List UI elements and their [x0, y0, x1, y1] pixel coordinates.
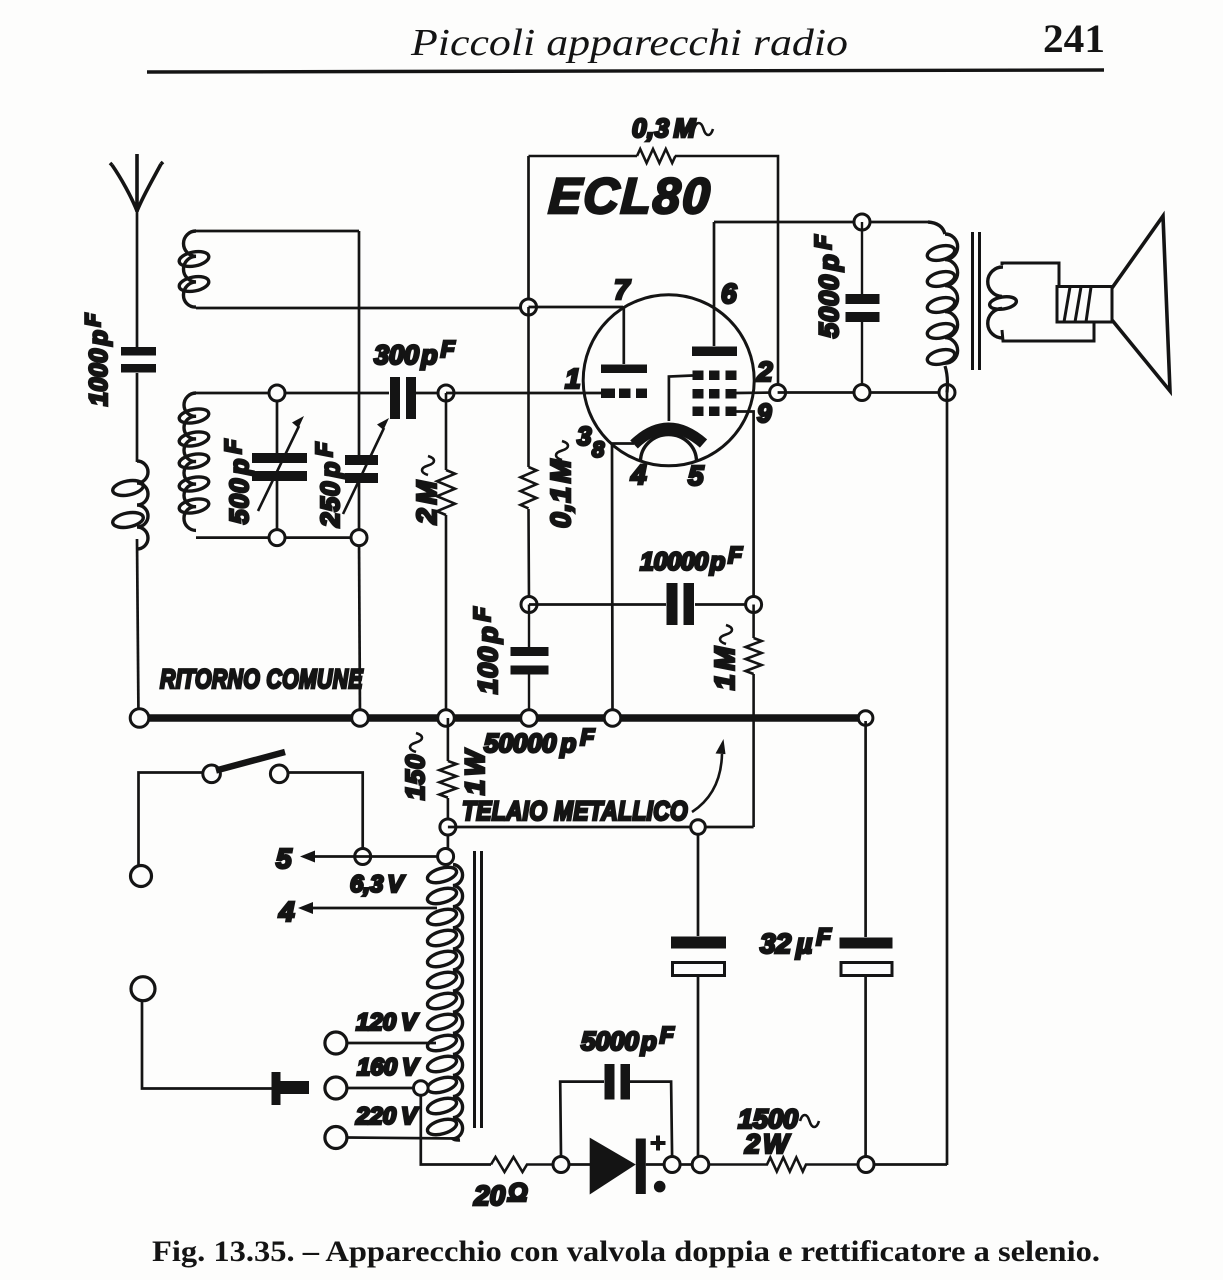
- node 150 bottom: [440, 819, 456, 835]
- node chassis electrolytic branch: [691, 820, 706, 835]
- capacitor 10000pF: [667, 583, 695, 625]
- power transformer winding T1: [438, 849, 454, 865]
- arrow of variable cap 500pF: [258, 426, 299, 511]
- pentode anode plate: [692, 347, 737, 357]
- svg-text:RITORNO COMUNE: RITORNO COMUNE: [160, 664, 363, 694]
- wire pin 9 lead down: [737, 412, 754, 605]
- capacitor 100pF: [528, 605, 530, 719]
- wire 250pF to bottom node: [358, 483, 361, 538]
- cathode arc: [634, 428, 704, 445]
- squiggle of 0.3M label: [694, 123, 713, 135]
- resistor R1 2M: [437, 393, 455, 718]
- svg-text:5000pF: 5000pF: [581, 1022, 675, 1056]
- wire g3 row to cathode: [669, 376, 693, 422]
- wire top coil upper edge: [196, 230, 359, 233]
- speaker frame: [1002, 263, 1094, 341]
- svg-text:150: 150: [400, 754, 430, 800]
- triode grid dashes: [601, 389, 647, 399]
- svg-text:5: 5: [688, 460, 704, 491]
- pin 6 lead: [713, 222, 716, 346]
- tuned secondary coil L1b: [184, 393, 196, 530]
- wire heater 5 row: [311, 855, 438, 858]
- svg-text:6: 6: [721, 278, 737, 309]
- svg-text:4: 4: [630, 459, 647, 490]
- wire 120V tap: [347, 1042, 436, 1045]
- arrow 4: [298, 902, 313, 914]
- switch S1: [203, 765, 221, 783]
- svg-text:5: 5: [276, 843, 292, 874]
- speaker voice coil box: [1057, 287, 1112, 323]
- node 10000pF right / pin9: [746, 597, 762, 613]
- svg-text:220V: 220V: [355, 1103, 419, 1130]
- speaker horn: [1112, 216, 1170, 391]
- node electrolytic 2 bottom: [858, 1157, 874, 1173]
- svg-text:1M: 1M: [709, 646, 740, 690]
- svg-text:2M: 2M: [411, 480, 442, 525]
- cathode lead to pins 3 8: [612, 444, 634, 719]
- wire secondary top edge to 300pF: [196, 392, 389, 395]
- wire chassis row: [448, 826, 754, 829]
- wire heater 4 row: [309, 907, 437, 910]
- wire antenna to C1: [136, 211, 139, 348]
- wire primary bottom to node: [945, 366, 947, 393]
- wire bottom right corner: [874, 1163, 947, 1166]
- svg-text:Ω: Ω: [507, 1179, 528, 1207]
- node 500pF top: [269, 385, 285, 401]
- svg-text:TELAIO METALLICO: TELAIO METALLICO: [462, 796, 688, 826]
- node 5000pF top: [854, 214, 870, 230]
- svg-text:1000pF: 1000pF: [82, 313, 113, 406]
- svg-text:9: 9: [757, 398, 772, 428]
- wire node to diode: [569, 1163, 590, 1166]
- output transformer secondary: [988, 267, 1003, 338]
- transformer core: [973, 232, 980, 370]
- wire switch left to plug: [139, 773, 203, 866]
- svg-text:300pF: 300pF: [374, 336, 456, 370]
- label 100pF vertical: [469, 606, 503, 694]
- label 5000pF vertical: [810, 234, 844, 338]
- resistor R4 1M: [746, 605, 762, 828]
- resistor R5 150 ohm 1W: [439, 718, 456, 827]
- RF choke L2 top coil: [183, 231, 196, 307]
- capacitor 5000pF anode bypass: [861, 222, 863, 393]
- wire anode node to tube pin 7: [529, 306, 624, 309]
- node triode anode branch: [521, 299, 537, 315]
- node heater 5 row switch: [355, 849, 371, 865]
- heater arc: [641, 435, 697, 462]
- node bus 250pF: [352, 710, 369, 727]
- wire grid node to tube pin 1: [446, 392, 603, 395]
- svg-text:ECL80: ECL80: [547, 168, 713, 224]
- node bus right end: [858, 711, 873, 726]
- wire top coil lower edge to tube column: [196, 307, 529, 310]
- label 150: [400, 733, 430, 800]
- node grid R 2M top: [438, 385, 454, 401]
- output transformer primary: [928, 222, 945, 234]
- svg-text:3: 3: [577, 421, 592, 451]
- tap circle 160V: [325, 1077, 347, 1099]
- node 500pF bottom: [269, 530, 285, 546]
- node bus antenna: [130, 709, 149, 728]
- node 0.1M bottom: [521, 597, 537, 613]
- wire padder column: [358, 231, 361, 456]
- svg-text:1W: 1W: [460, 748, 490, 795]
- svg-text:4: 4: [278, 896, 295, 927]
- variable capacitor 250pF: [345, 455, 378, 483]
- wire secondary bottom edge: [196, 536, 359, 539]
- wire 160V down to mains rail: [421, 1095, 491, 1165]
- resistor R7 1500 ohm 2W: [709, 1158, 859, 1172]
- wire 10000pF row: [529, 603, 754, 606]
- wire right column down: [946, 393, 949, 1166]
- squiggle of 1500 label: [800, 1115, 819, 1127]
- svg-text:8: 8: [592, 437, 605, 462]
- label 0.1M: [545, 441, 576, 528]
- mains prong symbol: [272, 1072, 310, 1105]
- node electrolytic 1 bottom: [692, 1156, 709, 1173]
- svg-text:241: 241: [1043, 16, 1105, 61]
- label 1000pF: [82, 313, 113, 406]
- polarity dot: [654, 1181, 666, 1193]
- node pin 2 junction: [770, 385, 786, 401]
- tap circle 120V: [325, 1032, 347, 1054]
- selenium rectifier D1: [590, 1138, 636, 1195]
- svg-text:0,1M: 0,1M: [545, 459, 576, 528]
- wire 500pF top leg: [276, 393, 279, 454]
- node 160V: [414, 1081, 429, 1096]
- plus mark: [651, 1136, 666, 1151]
- label 2M: [411, 456, 442, 525]
- node diode anode: [553, 1157, 569, 1173]
- wire 300pF to grid node: [416, 392, 446, 395]
- capacitor C1 1000pF: [121, 347, 156, 373]
- variable capacitor 500pF: [252, 453, 307, 481]
- resistor R3 0.3M: [529, 149, 779, 393]
- wire 250pF node down to bus: [359, 538, 360, 718]
- svg-text:2W: 2W: [744, 1129, 791, 1159]
- capacitor 300pF: [390, 377, 416, 419]
- arrow 5: [300, 851, 315, 863]
- pin 7 lead: [622, 306, 625, 364]
- svg-text:100pF: 100pF: [469, 606, 503, 694]
- wire 220V tap: [347, 1138, 458, 1139]
- wire C1 to antenna coil: [136, 373, 139, 462]
- tube ECL80 envelope U1: [583, 295, 754, 466]
- electrolytic capacitor 32uF no2: [864, 721, 867, 1157]
- svg-text:0,3M: 0,3M: [632, 113, 697, 143]
- svg-text:10000pF: 10000pF: [640, 542, 743, 576]
- svg-text:32µF: 32µF: [760, 924, 832, 959]
- svg-text:50000pF: 50000pF: [484, 724, 595, 758]
- plug pin P1: [131, 866, 152, 887]
- resistor R2 0.1M: [521, 307, 537, 605]
- resistor R6 20 ohm: [491, 1157, 554, 1172]
- chassis return bus: [140, 714, 866, 722]
- capacitor 5000pF rectifier bypass loop: [560, 1082, 672, 1157]
- node bus 2M: [438, 710, 455, 727]
- wire pin 2 to junction: [737, 391, 778, 394]
- triode anode plate: [601, 365, 647, 374]
- header rule: [147, 70, 1104, 72]
- svg-text:7: 7: [614, 274, 631, 305]
- label 500pF: [220, 439, 254, 524]
- wire triode anode column: [527, 156, 530, 307]
- label 250pF: [311, 442, 345, 528]
- svg-text:1: 1: [565, 363, 581, 394]
- plug pin P2: [131, 977, 155, 1001]
- electrolytic capacitor 32uF no1: [697, 834, 700, 1157]
- wire cathode node to electrolytic node: [680, 1163, 693, 1166]
- node bus cathode: [604, 710, 621, 727]
- power transformer core: [475, 851, 482, 1128]
- label 1W: [460, 748, 490, 795]
- node transformer primary bottom: [939, 385, 955, 401]
- wire antenna coil to bus: [137, 539, 139, 718]
- antenna: [110, 154, 163, 212]
- svg-text:120V: 120V: [356, 1009, 419, 1036]
- svg-text:160V: 160V: [357, 1054, 420, 1081]
- wire 160V tap: [347, 1087, 414, 1090]
- svg-text:6,3V: 6,3V: [350, 871, 405, 898]
- node bus 100pF: [521, 710, 538, 727]
- svg-text:2: 2: [756, 356, 773, 387]
- node diode cathode: [664, 1157, 680, 1173]
- pentode grid square grid: [693, 371, 737, 417]
- wire 500pF bottom leg: [276, 481, 279, 538]
- wire diode to node: [646, 1163, 664, 1166]
- label 1M: [709, 625, 740, 690]
- antenna coupling coil L1a: [137, 461, 148, 549]
- node 250pF bottom: [351, 530, 367, 546]
- svg-text:Fig. 13.35. – Apparecchio con: Fig. 13.35. – Apparecchio con valvola do…: [152, 1235, 1100, 1268]
- arrow of variable cap 250pF: [343, 428, 384, 514]
- svg-text:Piccoli apparecchi radio: Piccoli apparecchi radio: [410, 22, 848, 64]
- wire pin2 rail to speaker transformer: [778, 391, 947, 394]
- node 5000pF bottom: [854, 385, 870, 401]
- chassis arrow: [692, 754, 722, 812]
- tap circle 220V: [325, 1127, 347, 1149]
- svg-text:20: 20: [473, 1180, 506, 1211]
- wire plug2 to prong: [142, 1001, 272, 1089]
- wire switch right leg: [288, 773, 363, 850]
- svg-text:250pF: 250pF: [311, 442, 345, 528]
- svg-text:500pF: 500pF: [220, 439, 254, 524]
- wire pin6 top rail to transformer: [714, 221, 928, 224]
- svg-text:5000pF: 5000pF: [810, 234, 844, 338]
